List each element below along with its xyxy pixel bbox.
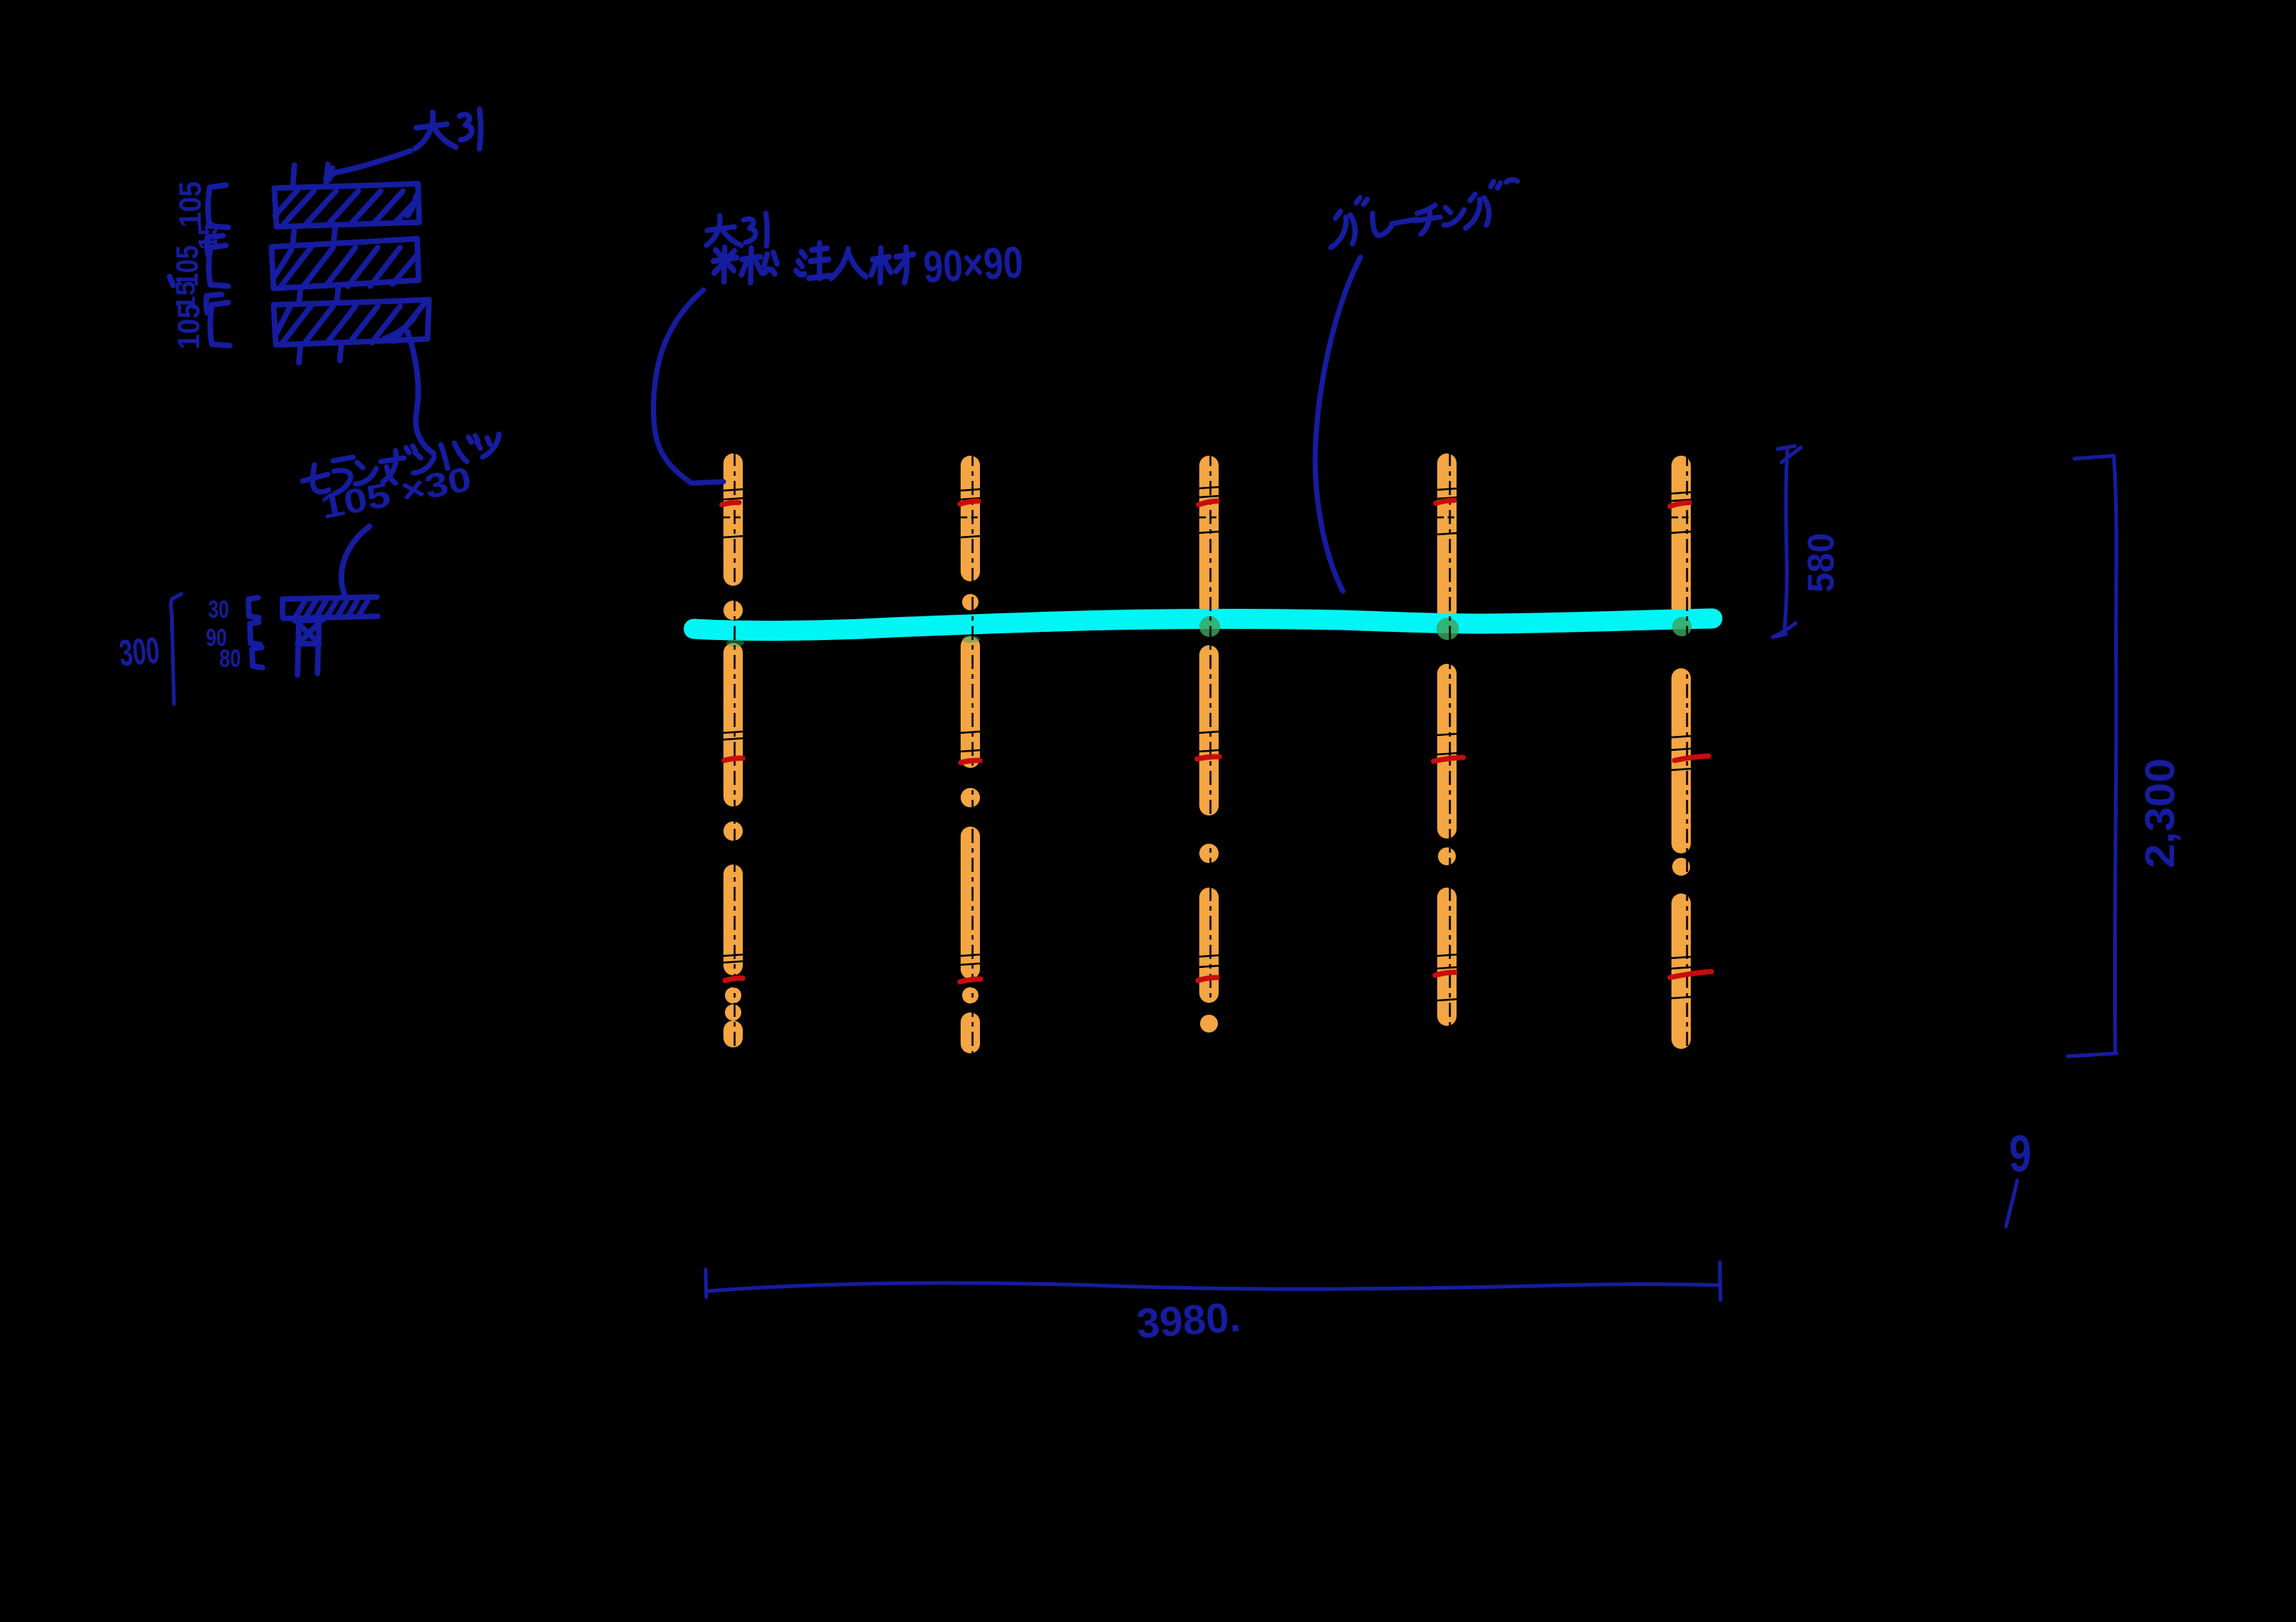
svg-text:30: 30 bbox=[208, 595, 229, 623]
svg-text:2,300: 2,300 bbox=[2136, 758, 2183, 868]
svg-text:90×90: 90×90 bbox=[922, 237, 1024, 292]
svg-text:80: 80 bbox=[219, 644, 241, 672]
svg-text:105: 105 bbox=[171, 303, 206, 349]
svg-text:3980.: 3980. bbox=[1135, 1293, 1242, 1347]
svg-text:105: 105 bbox=[172, 181, 207, 227]
svg-text:9: 9 bbox=[2009, 1125, 2031, 1183]
svg-text:105: 105 bbox=[170, 245, 204, 287]
svg-text:580: 580 bbox=[1800, 533, 1842, 592]
svg-text:300: 300 bbox=[117, 629, 161, 673]
